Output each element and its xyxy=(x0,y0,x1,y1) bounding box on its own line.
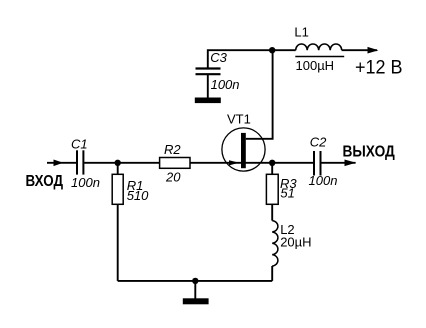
wire xyxy=(271,204,273,220)
node D (bottom junction) xyxy=(192,278,198,284)
svg-text:VT1: VT1 xyxy=(227,112,251,127)
wire xyxy=(84,162,159,164)
wire xyxy=(342,49,377,51)
wire xyxy=(271,163,273,175)
node A (C1/R1 junction) xyxy=(115,160,121,166)
wire xyxy=(117,204,119,281)
capacitor C3 xyxy=(196,69,221,75)
wire xyxy=(194,281,196,299)
svg-text:100µH: 100µH xyxy=(296,58,335,73)
svg-text:L1: L1 xyxy=(294,25,308,40)
svg-text:20: 20 xyxy=(165,169,181,184)
wire xyxy=(117,163,119,175)
wire xyxy=(118,280,273,282)
supply arrow xyxy=(368,47,379,54)
wire xyxy=(322,162,356,164)
node B (top junction) xyxy=(269,47,275,53)
svg-text:510: 510 xyxy=(127,188,149,203)
svg-text:100n: 100n xyxy=(211,77,240,92)
ground (under C3) xyxy=(195,98,221,104)
output arrow xyxy=(345,160,357,167)
svg-text:100n: 100n xyxy=(309,173,338,188)
svg-text:ВХОД: ВХОД xyxy=(26,173,64,190)
wire xyxy=(47,162,76,164)
inductor L1 xyxy=(296,44,342,50)
inductor L2 xyxy=(272,221,278,266)
wire xyxy=(190,162,313,164)
svg-text:100n: 100n xyxy=(71,175,100,190)
svg-text:20µH: 20µH xyxy=(280,234,311,249)
wire xyxy=(207,75,209,98)
svg-text:51: 51 xyxy=(280,186,294,201)
svg-text:C3: C3 xyxy=(210,50,227,65)
svg-text:+12 В: +12 В xyxy=(355,57,403,78)
svg-text:R2: R2 xyxy=(164,142,181,157)
svg-text:C1: C1 xyxy=(71,137,88,152)
svg-text:C2: C2 xyxy=(310,134,327,149)
wire xyxy=(246,50,273,139)
input arrow xyxy=(54,160,64,167)
capacitor C1 xyxy=(77,150,83,174)
transistor VT1 xyxy=(222,128,265,171)
wire xyxy=(271,266,273,281)
core line L1 xyxy=(295,56,344,58)
capacitor C2 xyxy=(314,151,321,176)
svg-text:ВЫХОД: ВЫХОД xyxy=(343,144,396,161)
ground (bottom) xyxy=(183,298,209,304)
node C (main junction right) xyxy=(269,160,275,166)
resistor R1 xyxy=(112,174,123,204)
resistor R3 xyxy=(266,174,278,204)
resistor R2 xyxy=(160,158,190,169)
wire xyxy=(208,50,296,68)
